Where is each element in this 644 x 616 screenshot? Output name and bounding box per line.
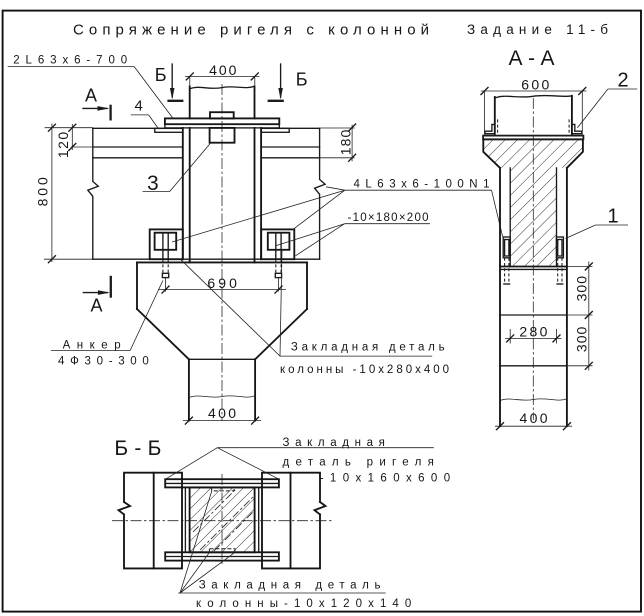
- right ригель line 180: [261, 157, 320, 159]
- dim 600: [481, 90, 587, 92]
- svg-text:Б-Б: Б-Б: [114, 437, 161, 460]
- shaft break wavy: [500, 399, 567, 401]
- svg-text:400: 400: [209, 62, 237, 78]
- leader 4L63 to right break: [326, 187, 345, 190]
- console left edge: [136, 262, 138, 309]
- console right edge: [306, 262, 308, 309]
- dim 180 right: [351, 125, 353, 162]
- svg-text:400: 400: [208, 405, 236, 421]
- svg-text:4: 4: [135, 98, 143, 115]
- hidden plate dashed bottom: [209, 549, 235, 553]
- left ригель line 120: [93, 146, 183, 148]
- svg-text:600: 600: [521, 77, 549, 93]
- shaft left edge: [188, 359, 190, 420]
- left anchor shank: [162, 250, 164, 259]
- svg-text:1: 1: [608, 205, 619, 227]
- bottom plate band: [165, 552, 279, 560]
- left ригель top edge: [93, 127, 183, 129]
- right corner angle: [572, 124, 582, 133]
- left anchor bolt verticals: [162, 233, 164, 250]
- ригель bottom line: [93, 258, 320, 260]
- right anchor inner box: [268, 233, 290, 250]
- console right haunch diagonal: [255, 309, 307, 359]
- right anchor foot: [275, 273, 281, 277]
- left anchor inner box: [155, 233, 177, 250]
- svg-text:-10×180×200: -10×180×200: [348, 212, 429, 224]
- right flange block: [262, 473, 326, 569]
- svg-text:300: 300: [573, 276, 589, 302]
- right anchor assembly: [556, 237, 563, 258]
- column right face lower: [254, 128, 256, 263]
- head outline: [483, 140, 583, 168]
- leader 4L63 to right box corner: [293, 190, 345, 229]
- shaft right edge: [254, 359, 256, 420]
- anchor shanks dashed: [504, 258, 506, 284]
- hatched head and core: [483, 140, 583, 267]
- right ригель right edge with break: [315, 128, 326, 259]
- dim 400 bottom A-A: [495, 425, 572, 427]
- leader 4L63 long to left bolt: [172, 190, 345, 242]
- left anchor assembly: [503, 237, 510, 258]
- leader закладная to right box: [280, 250, 282, 356]
- plate 4 top plate: [165, 118, 279, 124]
- dim 800: [51, 124, 53, 263]
- column left face lower: [189, 128, 191, 263]
- hidden plate dashed top: [212, 487, 234, 491]
- svg-text:800: 800: [34, 177, 50, 206]
- svg-text:280: 280: [519, 324, 547, 340]
- shaft right edge: [566, 168, 568, 426]
- leaders to top plate: [166, 448, 218, 480]
- shaft break wavy: [189, 396, 255, 398]
- left block internal line: [153, 473, 155, 569]
- column centerline: [221, 84, 223, 421]
- leader анкер to left bolt: [130, 281, 163, 351]
- svg-text:2: 2: [618, 69, 629, 91]
- leader 4L63 to A-A left box: [492, 190, 503, 236]
- right anchor outer box: [261, 229, 294, 259]
- console top double line: [500, 266, 567, 268]
- shaft line 300 second: [500, 365, 567, 367]
- leader закладная to left console: [181, 260, 280, 356]
- svg-text:А-А: А-А: [509, 47, 555, 70]
- dim 280: [505, 337, 562, 339]
- dim 400 top: [185, 75, 260, 77]
- svg-text:180: 180: [338, 129, 354, 155]
- ригель block right edge: [571, 96, 573, 136]
- right ригель left face: [260, 128, 262, 259]
- ригель block left edge: [494, 97, 496, 135]
- svg-text:Закладная деталь: Закладная деталь: [291, 342, 445, 354]
- ригель block top wavy: [495, 95, 572, 98]
- right anchor bolt verticals: [275, 233, 277, 250]
- console left haunch diagonal: [137, 309, 189, 359]
- svg-text:120: 120: [55, 132, 71, 159]
- left anchor foot: [162, 273, 168, 277]
- dash-dot diagonals in core: [193, 488, 237, 532]
- dim 300-300 right: [588, 262, 590, 371]
- dim 120: [71, 124, 73, 150]
- svg-text:300: 300: [573, 326, 589, 352]
- centerline: [532, 98, 534, 420]
- shaft line 300 first: [500, 314, 567, 316]
- rib above plate: [210, 112, 234, 118]
- console top thick line: [137, 261, 307, 263]
- leader -10x180x200: [277, 224, 345, 246]
- left ригель left edge with break: [88, 128, 99, 259]
- thin plate under plate 4: [165, 124, 279, 128]
- svg-text:Б: Б: [296, 69, 308, 89]
- column left face upper: [189, 87, 191, 119]
- core edges: [509, 168, 511, 267]
- svg-text:А: А: [91, 295, 103, 315]
- left flange block: [119, 473, 183, 569]
- left corner angle: [485, 124, 495, 133]
- right anchor shank: [275, 250, 277, 259]
- right ригель line 120: [261, 146, 320, 148]
- dim 400 bottom: [183, 420, 261, 422]
- dim 690: [158, 289, 286, 291]
- right ригель top edge: [261, 127, 320, 129]
- svg-text:Б: Б: [155, 65, 167, 85]
- plate in section: [483, 136, 583, 140]
- shaft top line: [189, 358, 255, 360]
- top plate band: [165, 479, 279, 487]
- left anchor outer box: [150, 229, 183, 259]
- vertical centerline: [221, 474, 223, 566]
- svg-text:А: А: [85, 85, 97, 105]
- rib 3 below plate: [210, 128, 235, 143]
- left ригель line 180: [93, 157, 183, 159]
- left ригель right face: [182, 128, 184, 259]
- inner thin edges: [184, 487, 186, 552]
- svg-text:690: 690: [207, 275, 237, 291]
- left ригель embedded strip: [155, 128, 183, 132]
- svg-text:Закладная: Закладная: [283, 437, 385, 449]
- leaders to hidden plates: [180, 491, 212, 593]
- right block internal line: [290, 473, 292, 569]
- horizontal centerline: [112, 520, 332, 522]
- hatched core: [190, 487, 255, 552]
- shaft left edge: [499, 168, 501, 426]
- svg-text:400: 400: [520, 410, 548, 426]
- column top break wavy: [190, 86, 255, 89]
- right ригель embedded strip: [261, 128, 289, 132]
- column right face upper: [254, 87, 256, 119]
